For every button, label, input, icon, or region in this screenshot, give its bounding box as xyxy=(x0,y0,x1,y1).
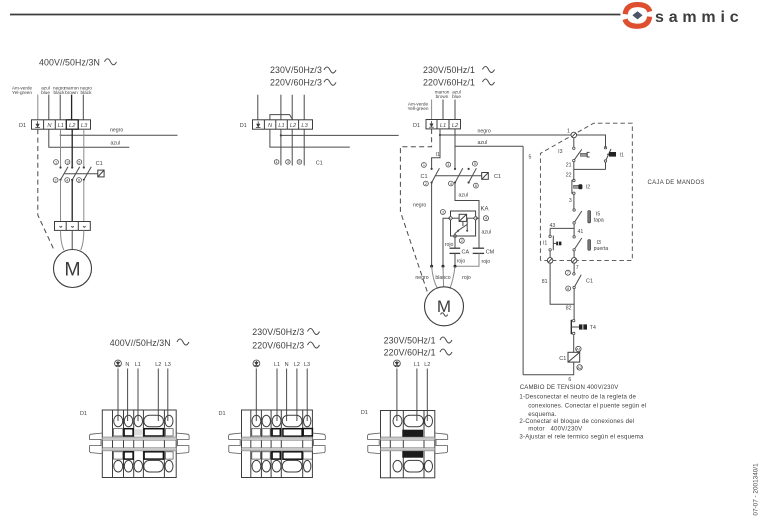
pin 1 xyxy=(274,160,279,165)
KA pin4 stub to azul xyxy=(476,217,479,219)
A2 xyxy=(577,365,582,370)
wire negro L3 xyxy=(82,95,84,120)
svg-text:2-Conectar el bloque de conexi: 2-Conectar el bloque de conexiones del xyxy=(519,418,634,425)
logo diamond xyxy=(632,11,642,19)
coil box xyxy=(482,173,489,180)
svg-text:C1: C1 xyxy=(559,356,566,362)
svg-text:Yell-green: Yell-green xyxy=(408,106,429,111)
svg-text:1-Desconectar el neutro de la: 1-Desconectar el neutro de la regleta de xyxy=(519,394,636,401)
svg-text:C1: C1 xyxy=(494,174,501,180)
svg-text:N: N xyxy=(125,362,129,368)
svg-text:puerta: puerta xyxy=(594,246,609,252)
terminal ground symbol xyxy=(429,121,434,127)
svg-text:sammic: sammic xyxy=(655,9,743,26)
svg-text:azul: azul xyxy=(459,193,469,199)
pole2 pin3 xyxy=(65,160,70,165)
wire L1 brown xyxy=(442,100,444,120)
svg-text:4: 4 xyxy=(66,178,68,182)
wire negro right (from L1) xyxy=(280,129,282,165)
svg-text:2: 2 xyxy=(425,182,427,186)
svg-text:tapa: tapa xyxy=(594,218,604,224)
pin4 xyxy=(449,181,454,186)
logo sammic symbol bottom arc xyxy=(625,17,650,27)
svg-text:D1: D1 xyxy=(19,123,26,129)
svg-text:7: 7 xyxy=(567,271,569,275)
svg-text:L2: L2 xyxy=(69,123,76,129)
svg-text:230V/50Hz/1: 230V/50Hz/1 xyxy=(423,65,475,75)
svg-text:1: 1 xyxy=(276,160,278,164)
terminal block D1 xyxy=(253,120,313,129)
bottom terminals xyxy=(252,460,311,472)
svg-text:3: 3 xyxy=(447,163,449,167)
svg-text:I2: I2 xyxy=(586,184,590,190)
wire L2 down xyxy=(71,129,73,167)
svg-text:220V/60Hz/3: 220V/60Hz/3 xyxy=(270,77,322,87)
svg-text:esquema.: esquema. xyxy=(528,411,556,418)
ground label symbol xyxy=(394,360,401,367)
svg-text:blue: blue xyxy=(452,94,461,99)
svg-text:8: 8 xyxy=(567,287,569,291)
svg-text:T4: T4 xyxy=(590,325,596,331)
wire marron L2 xyxy=(71,95,73,120)
svg-text:400V//50Hz/3N: 400V//50Hz/3N xyxy=(39,58,100,68)
logo sammic symbol top arc xyxy=(625,5,650,15)
wire to I1 top xyxy=(577,135,606,148)
pin5 xyxy=(473,161,478,166)
svg-text:5: 5 xyxy=(78,160,80,164)
svg-text:blue: blue xyxy=(41,90,50,95)
contact dots top xyxy=(59,166,61,168)
svg-text:rojo: rojo xyxy=(457,258,466,264)
svg-text:4: 4 xyxy=(485,217,487,221)
block body xyxy=(242,410,313,478)
wire azul N xyxy=(48,95,50,120)
svg-text:azul: azul xyxy=(111,140,121,146)
side tabs xyxy=(368,433,381,454)
svg-text:KA: KA xyxy=(481,207,489,213)
wires contacts to thermal relay xyxy=(60,180,62,222)
KA pin4 diamond xyxy=(473,216,477,220)
svg-text:M: M xyxy=(64,259,80,281)
svg-text:negro: negro xyxy=(478,128,491,134)
pushbutton I1 (NO) xyxy=(604,147,606,149)
svg-text:black: black xyxy=(54,90,66,95)
junction dots xyxy=(430,265,433,268)
svg-text:2: 2 xyxy=(55,178,57,182)
svg-text:I3: I3 xyxy=(558,149,562,155)
pin 5 xyxy=(297,160,302,165)
svg-text:5: 5 xyxy=(474,162,476,166)
svg-text:Yel-green: Yel-green xyxy=(12,90,32,95)
caja de mandos dashed boundary xyxy=(540,123,632,260)
actuator bar xyxy=(65,173,98,175)
svg-text:A1: A1 xyxy=(576,347,581,351)
terminal block D1 xyxy=(32,120,91,129)
top terminals xyxy=(114,415,173,427)
svg-text:L1: L1 xyxy=(414,362,420,368)
svg-text:7: 7 xyxy=(576,265,579,271)
svg-text:L2: L2 xyxy=(452,123,459,129)
svg-text:6: 6 xyxy=(475,184,477,188)
svg-text:CA: CA xyxy=(462,250,470,256)
side tabs xyxy=(89,433,102,454)
svg-text:A2: A2 xyxy=(577,366,582,370)
svg-text:rojo: rojo xyxy=(482,259,491,265)
svg-text:C1: C1 xyxy=(421,174,428,180)
svg-text:230V/50Hz/1: 230V/50Hz/1 xyxy=(384,336,436,346)
pin3 xyxy=(446,162,451,167)
svg-text:5: 5 xyxy=(529,155,532,161)
top bridge row xyxy=(113,429,123,436)
top terminals xyxy=(393,415,433,427)
svg-text:L3: L3 xyxy=(301,123,308,129)
svg-text:D1: D1 xyxy=(240,123,247,129)
svg-text:D1: D1 xyxy=(219,411,226,417)
svg-text:L2: L2 xyxy=(290,123,297,129)
switch I5 tapa xyxy=(573,209,575,211)
top bridge row xyxy=(252,429,261,436)
svg-text:negro: negro xyxy=(413,203,426,209)
contact dots bottom xyxy=(59,179,61,181)
svg-text:L2: L2 xyxy=(155,362,161,368)
switch I3 puerta xyxy=(573,236,575,238)
block body xyxy=(102,410,176,478)
thermal relay block xyxy=(55,222,91,231)
pin6 xyxy=(474,183,479,188)
svg-text:220V/60Hz/3: 220V/60Hz/3 xyxy=(252,341,304,351)
wire ground xyxy=(257,95,259,120)
pushbutton I2 (NC) xyxy=(573,179,575,181)
svg-text:rojo: rojo xyxy=(462,275,471,281)
wire L2 xyxy=(291,95,293,120)
terminal block D1 xyxy=(426,120,461,129)
wire negro L1 xyxy=(59,95,61,120)
svg-text:negro: negro xyxy=(415,275,428,281)
top contact dots xyxy=(431,168,433,170)
thermal contact T4 xyxy=(573,319,575,321)
motor M xyxy=(54,250,92,288)
wire L1 down xyxy=(60,129,62,167)
dashed ground to motor xyxy=(400,129,431,292)
svg-text:22: 22 xyxy=(566,172,572,178)
svg-text:3-Ajustar el rele termico segú: 3-Ajustar el rele termico según el esque… xyxy=(519,434,644,441)
actuator bar xyxy=(435,175,482,177)
wire azul right (from N) xyxy=(270,129,350,147)
pin 3 xyxy=(286,160,291,165)
svg-text:CAMBIO DE TENSION 400V/230V: CAMBIO DE TENSION 400V/230V xyxy=(520,384,620,391)
bridge bars (solid) xyxy=(402,430,423,438)
svg-text:CM: CM xyxy=(486,250,495,256)
svg-text:rojo: rojo xyxy=(445,242,454,248)
mid rails xyxy=(242,437,313,440)
svg-text:L3: L3 xyxy=(165,362,171,368)
KA bottom pin xyxy=(454,235,457,238)
svg-text:I5: I5 xyxy=(596,211,600,217)
wire ground xyxy=(431,100,433,120)
svg-text:220V/60Hz/1: 220V/60Hz/1 xyxy=(423,78,475,88)
svg-text:07-07 - 2001340/1: 07-07 - 2001340/1 xyxy=(753,463,760,516)
wire to coil xyxy=(573,335,575,353)
capacitor CM xyxy=(473,247,484,249)
svg-text:L1: L1 xyxy=(58,123,64,129)
svg-text:230V/50Hz/3: 230V/50Hz/3 xyxy=(270,65,322,75)
svg-text:2: 2 xyxy=(461,239,463,243)
KA coil xyxy=(459,214,467,221)
motor M xyxy=(425,287,464,326)
ground label symbol xyxy=(115,360,122,367)
svg-text:N: N xyxy=(285,362,289,368)
svg-text:3: 3 xyxy=(66,160,68,164)
wire L2 down xyxy=(291,129,293,165)
wire 43/41 junction xyxy=(573,224,575,236)
svg-text:1: 1 xyxy=(423,163,425,167)
jumper N-L2 xyxy=(270,115,293,120)
wires to block xyxy=(396,369,398,422)
A1 xyxy=(576,346,581,351)
wire ground (yel-green) xyxy=(37,95,39,120)
svg-text:M: M xyxy=(437,297,451,316)
svg-text:CAJA DE MANDOS: CAJA DE MANDOS xyxy=(648,180,705,186)
pin2 xyxy=(424,181,429,186)
svg-text:C1: C1 xyxy=(586,279,593,285)
svg-text:L2: L2 xyxy=(294,362,300,368)
bottom contact dots xyxy=(431,181,433,183)
wire CM down and left xyxy=(455,253,479,266)
svg-text:3: 3 xyxy=(287,160,289,164)
svg-text:negro: negro xyxy=(110,128,123,134)
block body xyxy=(381,411,435,478)
wire L3 xyxy=(303,95,305,120)
mid rails xyxy=(102,437,176,440)
svg-text:1: 1 xyxy=(55,160,57,164)
svg-text:I1: I1 xyxy=(436,152,440,158)
svg-text:81: 81 xyxy=(542,279,548,285)
svg-text:L3: L3 xyxy=(304,362,310,368)
top terminals xyxy=(252,415,311,427)
svg-text:brown: brown xyxy=(436,94,449,99)
wire L3 down xyxy=(83,129,85,167)
svg-text:6: 6 xyxy=(568,377,571,383)
svg-text:blanco: blanco xyxy=(435,275,450,281)
KA inner switch xyxy=(462,221,464,226)
svg-text:400V//50Hz/3N: 400V//50Hz/3N xyxy=(110,338,171,348)
contactor C1 pole1 pin1 xyxy=(54,160,59,165)
motor leads xyxy=(432,266,438,288)
levers xyxy=(61,167,68,180)
bottom bridge row xyxy=(252,452,261,459)
blanco wire from KA pin3 xyxy=(443,218,451,266)
svg-text:C1: C1 xyxy=(96,161,103,167)
ground label symbol xyxy=(253,360,260,367)
levers xyxy=(432,168,440,182)
svg-text:L2: L2 xyxy=(424,362,430,368)
contact I1 (NC interlock) xyxy=(549,228,551,235)
svg-text:D1: D1 xyxy=(80,411,87,417)
svg-text:L3: L3 xyxy=(81,123,88,129)
KA pin3 diamond xyxy=(448,216,452,220)
wires to block xyxy=(117,369,119,422)
svg-text:21: 21 xyxy=(566,163,572,169)
svg-text:82: 82 xyxy=(566,305,572,311)
bottom terminals xyxy=(114,460,173,472)
side tabs xyxy=(229,433,242,454)
wire KA to CA xyxy=(454,237,456,248)
wire 6 return xyxy=(523,362,574,375)
top rule xyxy=(10,14,621,16)
svg-text:L1: L1 xyxy=(274,362,280,368)
svg-text:6: 6 xyxy=(78,178,80,182)
pin6 xyxy=(77,178,82,183)
svg-text:C1: C1 xyxy=(316,160,323,166)
svg-text:5: 5 xyxy=(298,160,300,164)
mid rails xyxy=(381,437,435,440)
svg-text:motor 400V/230V: motor 400V/230V xyxy=(528,426,583,433)
pole3 pin5 xyxy=(77,160,82,165)
svg-text:3: 3 xyxy=(569,198,572,204)
sine symbol xyxy=(105,59,117,65)
terminal ground symbol xyxy=(256,121,261,127)
svg-text:black: black xyxy=(81,90,93,95)
svg-text:3: 3 xyxy=(442,210,444,214)
svg-text:azul: azul xyxy=(478,140,488,146)
capacitor CA xyxy=(450,247,461,249)
dashed ground lead xyxy=(38,129,55,250)
svg-text:230V/50Hz/3: 230V/50Hz/3 xyxy=(252,327,304,337)
svg-text:D1: D1 xyxy=(413,123,420,129)
KA relay box xyxy=(451,211,476,236)
svg-text:L1: L1 xyxy=(135,362,141,368)
bottom bridge row xyxy=(113,452,123,459)
wire L1 xyxy=(280,95,282,120)
terminal ground symbol xyxy=(35,121,40,127)
pin4 xyxy=(65,178,70,183)
aux contact C1 7/8 xyxy=(565,270,570,275)
bottom gland terminals xyxy=(549,251,551,260)
svg-text:L1: L1 xyxy=(440,123,446,129)
bottom terminals xyxy=(393,460,433,472)
svg-text:4: 4 xyxy=(450,182,452,186)
svg-text:I1: I1 xyxy=(620,153,624,159)
azul vertical wire 5 xyxy=(522,146,524,375)
motor leads xyxy=(61,230,64,250)
svg-text:1: 1 xyxy=(567,129,570,135)
svg-text:conexiones. Conectar el puente: conexiones. Conectar el puente según el xyxy=(528,402,646,409)
C1 contactor: pin1 xyxy=(422,163,427,168)
wire CA down xyxy=(454,253,456,266)
svg-text:brown: brown xyxy=(65,90,78,95)
svg-text:220V/60Hz/1: 220V/60Hz/1 xyxy=(384,348,436,358)
svg-text:41: 41 xyxy=(578,229,584,235)
svg-text:L1: L1 xyxy=(278,123,284,129)
svg-text:D1: D1 xyxy=(361,410,368,416)
svg-text:azul: azul xyxy=(482,229,492,235)
wire L3 down xyxy=(303,129,305,165)
wire L2 blue xyxy=(454,100,456,120)
wires to block xyxy=(255,369,257,422)
pin2 xyxy=(53,178,58,183)
svg-text:I1: I1 xyxy=(543,241,547,247)
